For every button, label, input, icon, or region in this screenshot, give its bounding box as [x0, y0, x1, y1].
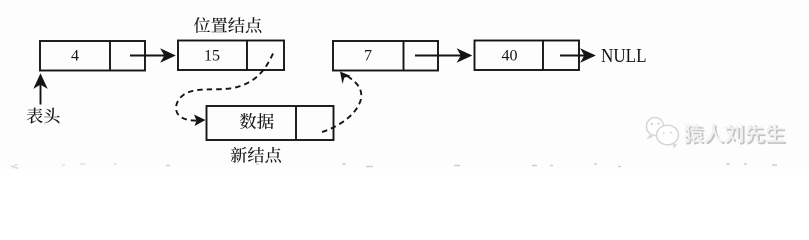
watermark logo: two chat bubbles: [646, 118, 679, 149]
wire: link arrow N3 to N4: [415, 55, 471, 57]
svg-text:15: 15: [204, 48, 220, 65]
wire: dashed insert-link from N2 pointer field curving to new node: [176, 54, 273, 121]
new node box (data): [207, 106, 334, 140]
label: list head (CJK 表头) below up-arrow: [27, 108, 60, 124]
node N2 box (value 15, position node): [178, 41, 284, 71]
svg-text:4: 4: [71, 48, 79, 65]
wire: dashed next-link from new node pointer field curving to N3: [322, 75, 361, 133]
label: position node (CJK 位置结点) above N2: [194, 17, 262, 33]
node N3 box (value 7): [333, 41, 438, 71]
decorative faint cut-off glyph row at bottom edge: [11, 164, 777, 169]
wire: link arrow N4 to NULL: [560, 55, 594, 57]
node N4 box (value 40): [475, 41, 580, 71]
arrowhead of dashed insert-link: [194, 115, 206, 127]
node N1 box (value 4): [40, 41, 145, 71]
svg-text:40: 40: [502, 48, 518, 65]
arrowhead of dashed next-link: [340, 72, 351, 85]
svg-text:NULL: NULL: [601, 45, 647, 67]
wire: head pointer up-arrow: [40, 75, 42, 105]
label: data (CJK 数据) inside new node: [240, 113, 274, 129]
label: new node (CJK 新结点) below new node box: [231, 147, 281, 163]
svg-text:7: 7: [364, 48, 372, 65]
wire: link arrow N1 to N2: [130, 55, 174, 57]
watermark text (CJK 猿人刘先生) embossed: [686, 126, 787, 145]
